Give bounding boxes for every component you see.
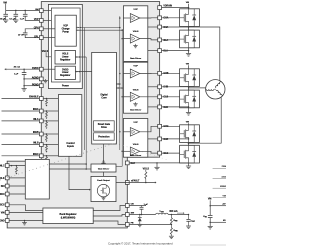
svg-text:Core: Core bbox=[101, 97, 107, 100]
svg-text:Inputs: Inputs bbox=[67, 145, 75, 148]
svg-text:VGLS: VGLS bbox=[133, 31, 139, 33]
svg-text:VM: VM bbox=[208, 198, 212, 201]
svg-text:1 µF: 1 µF bbox=[20, 19, 25, 21]
svg-text:SLA: SLA bbox=[163, 50, 168, 53]
svg-text:VCP: VCP bbox=[133, 9, 138, 11]
svg-text:INLC: INLC bbox=[0, 165, 5, 168]
svg-text:VDRAIN: VDRAIN bbox=[163, 5, 172, 8]
svg-text:FB: FB bbox=[131, 222, 134, 224]
svg-text:VGLS: VGLS bbox=[133, 89, 139, 91]
svg-text:INHB: INHB bbox=[33, 131, 39, 134]
svg-text:Gate Driver: Gate Driver bbox=[130, 57, 141, 60]
svg-text:Regulator: Regulator bbox=[60, 74, 70, 77]
svg-text:VGLS: VGLS bbox=[133, 144, 139, 146]
svg-text:GHA: GHA bbox=[163, 17, 168, 20]
svg-text:nFAULT: nFAULT bbox=[131, 179, 140, 182]
svg-text:Linear: Linear bbox=[62, 72, 69, 74]
svg-text:VGLS: VGLS bbox=[62, 54, 69, 56]
svg-text:Gate Driver: Gate Driver bbox=[98, 167, 109, 170]
svg-text:Gate Driver: Gate Driver bbox=[130, 154, 141, 157]
svg-text:nSCS: nSCS bbox=[221, 176, 226, 178]
svg-text:0.1 µF: 0.1 µF bbox=[9, 18, 16, 20]
svg-text:INLB: INLB bbox=[33, 142, 39, 145]
svg-text:GLA: GLA bbox=[163, 39, 168, 42]
svg-text:Linear: Linear bbox=[62, 57, 69, 59]
svg-text:VIN: VIN bbox=[1, 211, 5, 214]
svg-text:CB: CB bbox=[131, 203, 135, 205]
svg-text:nSCS: nSCS bbox=[0, 204, 5, 207]
svg-text:Fault Output: Fault Output bbox=[97, 179, 110, 182]
svg-text:SDI: SDI bbox=[1, 185, 5, 188]
svg-text:Gate Driver: Gate Driver bbox=[130, 109, 141, 112]
svg-text:10 µF: 10 µF bbox=[0, 18, 6, 20]
svg-text:DVDD: DVDD bbox=[62, 69, 69, 71]
svg-text:SDO: SDO bbox=[0, 193, 5, 196]
svg-text:Copyright © 2017, Texas Instru: Copyright © 2017, Texas Instruments Inco… bbox=[108, 242, 173, 246]
svg-text:IDRIVE: IDRIVE bbox=[220, 186, 226, 188]
svg-text:INHA: INHA bbox=[33, 108, 39, 111]
svg-text:1 µF: 1 µF bbox=[144, 204, 149, 206]
svg-text:Regulator: Regulator bbox=[60, 58, 70, 61]
svg-text:VGLS: VGLS bbox=[143, 167, 150, 170]
svg-text:VM: VM bbox=[35, 8, 39, 11]
svg-text:+5V: +5V bbox=[222, 204, 226, 206]
svg-text:1 µF: 1 µF bbox=[14, 74, 19, 76]
svg-text:VDS: VDS bbox=[223, 195, 226, 197]
svg-text:PWM: PWM bbox=[222, 166, 226, 168]
svg-text:(LMR16006X): (LMR16006X) bbox=[61, 216, 76, 219]
svg-text:Pump: Pump bbox=[62, 30, 69, 33]
svg-text:Drive: Drive bbox=[101, 126, 107, 129]
svg-text:47 nF: 47 nF bbox=[18, 33, 24, 36]
svg-text:VCP: VCP bbox=[133, 66, 138, 68]
svg-text:VGLS: VGLS bbox=[42, 50, 49, 53]
svg-text:INLA: INLA bbox=[33, 118, 39, 121]
svg-text:INHC: INHC bbox=[33, 153, 39, 156]
svg-text:VCP: VCP bbox=[133, 122, 138, 124]
svg-text:30 mA: 30 mA bbox=[14, 65, 21, 68]
svg-text:GND: GND bbox=[0, 219, 5, 222]
svg-text:SHA: SHA bbox=[163, 26, 168, 29]
svg-text:VM: VM bbox=[3, 1, 7, 4]
svg-text:ENABLE: ENABLE bbox=[29, 96, 39, 99]
svg-text:Power: Power bbox=[62, 85, 69, 88]
svg-text:600 mA: 600 mA bbox=[169, 210, 178, 213]
svg-text:Protection: Protection bbox=[98, 135, 110, 138]
